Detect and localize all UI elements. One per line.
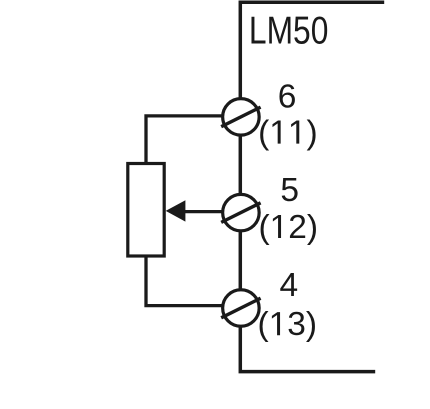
IC U1 LM50 device outline (partial box) bbox=[240, 2, 384, 371]
wire pot top to terminal 6 bbox=[146, 116, 223, 163]
wire wiper from terminal 5 bbox=[185, 210, 223, 213]
svg-text:4: 4 bbox=[280, 267, 299, 304]
svg-text:): ) bbox=[307, 115, 318, 152]
wiper arrowhead bbox=[166, 200, 186, 221]
svg-text:6: 6 bbox=[278, 79, 297, 116]
terminal 4 bbox=[221, 290, 260, 327]
svg-text:LM50: LM50 bbox=[249, 10, 329, 53]
terminal 5 bbox=[221, 194, 260, 231]
svg-text:3): 3) bbox=[287, 306, 317, 343]
svg-text:(: ( bbox=[259, 209, 270, 246]
svg-text:5: 5 bbox=[280, 172, 299, 209]
wire pot bottom to terminal 4 bbox=[146, 257, 223, 306]
svg-text:(: ( bbox=[258, 115, 269, 152]
terminal 6 bbox=[221, 99, 260, 135]
svg-text:(: ( bbox=[258, 306, 269, 343]
svg-text:2): 2) bbox=[288, 209, 318, 246]
potentiometer R1 body bbox=[128, 164, 164, 257]
